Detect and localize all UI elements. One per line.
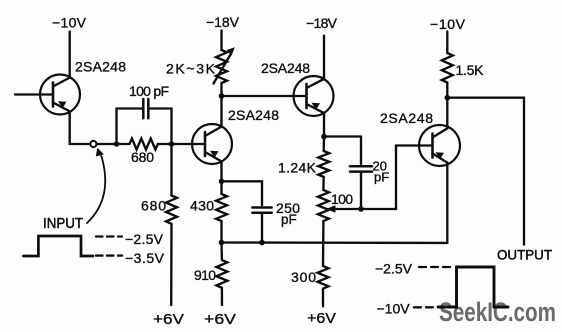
wire pot bottom down through rail to 300	[322, 222, 325, 266]
node junction dot right	[169, 141, 175, 147]
wire to 20pF top	[324, 137, 361, 165]
wire Q3 emitter down	[323, 113, 325, 136]
resistor R2 680 (vertical to +6V)	[166, 144, 177, 305]
resistor R6 300 (to +6V)	[318, 266, 329, 306]
wire node down to Q2 collector	[220, 96, 222, 126]
dashed level lines input	[96, 235, 122, 237]
svg-text:−10V: −10V	[52, 15, 87, 31]
svg-text:2SA248: 2SA248	[75, 59, 126, 75]
svg-text:−3.5V: −3.5V	[125, 250, 165, 266]
transistor Q1 2SA248	[15, 75, 80, 115]
node dot (1.5K / Q4 collector / output)	[445, 95, 451, 101]
svg-text:−18V: −18V	[306, 15, 338, 31]
wire node to junction	[96, 143, 116, 145]
transistor Q2 2SA248	[192, 124, 232, 164]
svg-text:−18V: −18V	[206, 14, 240, 30]
svg-text:430: 430	[190, 198, 214, 214]
potentiometer 100	[318, 190, 396, 222]
svg-text:+6V: +6V	[153, 311, 184, 328]
wire Q1 emitter down and right	[70, 111, 91, 144]
wire node down to Q4 collector	[446, 98, 448, 129]
svg-text:100 pF: 100 pF	[129, 83, 169, 99]
node dot (rheostat / Q2 collector / Q3 base)	[219, 93, 225, 99]
capacitor C2 250 pF	[252, 208, 271, 243]
resistor R3 430	[216, 181, 227, 242]
svg-text:+6V: +6V	[307, 310, 336, 327]
wire -18V down	[220, 31, 222, 51]
wire node to Q3 base	[222, 95, 307, 97]
svg-text:OUTPUT: OUTPUT	[497, 247, 552, 263]
svg-text:pF: pF	[374, 170, 389, 185]
svg-text:300: 300	[291, 269, 316, 285]
svg-text:+6V: +6V	[204, 311, 236, 328]
wire Q2 emitter down	[220, 161, 222, 181]
svg-text:680: 680	[141, 198, 166, 214]
resistor R7 1.5K	[442, 53, 453, 85]
wire -18V to Q3 collector	[323, 36, 325, 79]
svg-text:680: 680	[131, 149, 154, 165]
node dot (Q2 emitter / 430 / 250pF branch)	[219, 179, 225, 185]
wire rail (Q4 emitter to 430/910 junction)	[222, 241, 448, 244]
svg-text:910: 910	[194, 267, 216, 283]
wire node to output corner	[447, 98, 524, 245]
wire -10V to Q1 collector	[69, 32, 71, 78]
node dot (Q3 emitter / 1.24K / 20pF)	[321, 134, 327, 140]
dashed level lines output	[419, 266, 452, 268]
wire 1.5K to node	[446, 85, 448, 98]
OUTPUT waveform	[438, 267, 508, 307]
svg-text:2SA248: 2SA248	[228, 107, 279, 123]
wire -10V down to 1.5K	[446, 32, 448, 54]
svg-text:2K~3K: 2K~3K	[166, 61, 216, 77]
svg-text:INPUT: INPUT	[43, 215, 83, 232]
node junction dot left	[114, 141, 120, 147]
svg-text:1.24K: 1.24K	[278, 160, 317, 176]
resistor R4 910 (to +6V)	[216, 243, 227, 306]
rheostat 2K~3K (variable resistor)	[214, 47, 235, 96]
svg-text:1.5K: 1.5K	[456, 62, 485, 78]
svg-text:−10V: −10V	[377, 301, 411, 317]
wire junction to Q2 base	[172, 143, 206, 145]
capacitor C1 100 pF branch	[117, 99, 172, 144]
wire Q4 emitter down to rail	[446, 163, 448, 243]
resistor R5 1.24K	[318, 137, 329, 191]
arrow INPUT to node	[87, 148, 105, 223]
node dot (20pF bottom / wiper)	[358, 206, 364, 212]
svg-text:100: 100	[331, 191, 353, 207]
capacitor C3 20 pF	[350, 166, 372, 209]
node dot (430/910/rail)	[219, 240, 225, 246]
transistor Q3 2SA248	[294, 76, 334, 116]
svg-text:pF: pF	[281, 212, 297, 227]
svg-text:−10V: −10V	[430, 16, 466, 32]
wire to 250pF top	[222, 181, 263, 205]
svg-text:2SA248: 2SA248	[261, 60, 310, 76]
INPUT waveform	[24, 236, 94, 256]
node dot (250pF bottom / rail)	[259, 240, 265, 246]
svg-text:−2.5V: −2.5V	[125, 231, 164, 247]
resistor R1 680 (horizontal)	[117, 139, 172, 150]
wire wiper riser to Q4 base	[396, 146, 433, 210]
svg-text:2SA248: 2SA248	[380, 110, 433, 126]
node: open circle (input node)	[90, 141, 96, 147]
transistor Q4 2SA248	[419, 125, 460, 166]
svg-text:−2.5V: −2.5V	[375, 261, 413, 277]
